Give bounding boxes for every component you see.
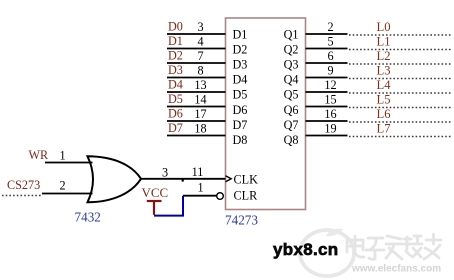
svg-text:CLR: CLR	[234, 189, 259, 203]
svg-text:D5: D5	[233, 88, 248, 102]
svg-text:D1: D1	[168, 34, 183, 48]
svg-text:D6: D6	[233, 103, 248, 117]
svg-text:D3: D3	[168, 63, 183, 77]
svg-text:D4: D4	[168, 78, 183, 92]
svg-text:1: 1	[59, 149, 65, 163]
svg-text:8: 8	[197, 64, 203, 78]
svg-text:14: 14	[194, 93, 206, 107]
wire Q2 to L1	[306, 48, 348, 50]
svg-text:D3: D3	[233, 58, 248, 72]
svg-text:ybx8.cn: ybx8.cn	[273, 240, 338, 259]
dotted wire to L1	[349, 49, 451, 51]
wire gate output pin 3 to CLK pin 11	[141, 178, 226, 180]
dotted wire CS273	[2, 195, 41, 197]
power VCC symbol	[147, 201, 162, 215]
wire D4 to pin 13	[167, 91, 226, 93]
dotted wire to L0	[349, 34, 451, 36]
wire D7 to pin 18	[167, 135, 226, 137]
svg-text:L0: L0	[377, 20, 391, 34]
wire CS273 to gate pin 2	[42, 193, 93, 195]
or-gate U2 7432	[88, 156, 142, 202]
dotted wire to L6	[349, 121, 451, 123]
svg-text:L3: L3	[377, 64, 391, 78]
clock input triangle on CLK	[226, 176, 232, 182]
wire D2 to pin 7	[167, 62, 226, 64]
svg-text:18: 18	[194, 122, 206, 136]
svg-text:WR: WR	[29, 148, 50, 162]
wire Q8 to L7	[306, 135, 348, 137]
svg-text:D7: D7	[168, 121, 183, 135]
junction nub on CLK wire	[182, 178, 184, 182]
svg-text:11: 11	[192, 165, 204, 179]
svg-text:17: 17	[194, 107, 206, 121]
watermark ybx8.cn circle	[300, 230, 354, 276]
svg-text:5: 5	[327, 35, 333, 49]
svg-text:L7: L7	[377, 122, 391, 136]
svg-text:19: 19	[324, 122, 336, 136]
svg-text:7432: 7432	[75, 210, 101, 225]
wire D6 to pin 17	[167, 120, 226, 122]
svg-text:D2: D2	[233, 42, 248, 56]
svg-text:CS273: CS273	[7, 178, 40, 192]
svg-text:VCC: VCC	[142, 185, 169, 200]
svg-text:Q5: Q5	[284, 88, 299, 102]
wire Q3 to L2	[306, 62, 348, 64]
svg-text:Q3: Q3	[284, 58, 299, 72]
svg-text:Q8: Q8	[284, 133, 299, 147]
svg-text:12: 12	[324, 78, 336, 92]
svg-text:D0: D0	[168, 20, 183, 34]
svg-text:D4: D4	[233, 73, 248, 87]
svg-text:CLK: CLK	[234, 173, 259, 187]
svg-text:74273: 74273	[225, 213, 258, 228]
dotted wire to L5	[349, 107, 451, 109]
wire VCC to CLR (blue)	[154, 196, 183, 216]
svg-text:16: 16	[324, 107, 336, 121]
svg-text:13: 13	[194, 78, 206, 92]
wire D0 to pin 3	[167, 33, 226, 35]
svg-text:L1: L1	[377, 35, 391, 49]
wire D5 to pin 14	[167, 106, 226, 108]
svg-text:D2: D2	[168, 49, 183, 63]
IC U1 74273 body	[226, 18, 306, 210]
svg-text:Q7: Q7	[284, 118, 299, 132]
svg-text:2: 2	[327, 20, 333, 34]
dotted wire to L3	[349, 78, 451, 80]
wire Q5 to L4	[306, 91, 348, 93]
svg-text:9: 9	[327, 64, 333, 78]
svg-text:4: 4	[197, 35, 203, 49]
svg-text:Q6: Q6	[284, 103, 299, 117]
svg-text:Q4: Q4	[284, 73, 299, 87]
wire Q4 to L3	[306, 77, 348, 79]
svg-text:2: 2	[59, 179, 65, 193]
watermark chinese characters	[347, 234, 441, 259]
dotted wire to L7	[349, 136, 451, 138]
wire to CLR pin 1	[183, 195, 217, 197]
wire D1 to pin 4	[167, 48, 226, 50]
svg-text:D5: D5	[168, 92, 183, 106]
inversion bubble on CLR	[217, 193, 224, 200]
wire Q7 to L6	[306, 120, 348, 122]
wire WR to gate pin 1	[45, 162, 93, 164]
svg-text:Q2: Q2	[284, 42, 299, 56]
svg-text:L5: L5	[377, 93, 391, 107]
svg-text:D1: D1	[233, 27, 248, 41]
wire Q6 to L5	[306, 106, 348, 108]
svg-text:D8: D8	[233, 133, 248, 147]
wire D3 to pin 8	[167, 77, 226, 79]
dotted wire to L2	[349, 63, 451, 65]
svg-text:L6: L6	[377, 107, 391, 121]
wire Q1 to L0	[306, 33, 348, 35]
svg-text:D6: D6	[168, 107, 183, 121]
svg-text:15: 15	[324, 93, 336, 107]
svg-text:3: 3	[197, 20, 203, 34]
svg-text:L4: L4	[377, 78, 392, 92]
svg-text:L2: L2	[377, 49, 391, 63]
dotted wire to L4	[349, 92, 451, 94]
svg-text:www.elecfans.com: www.elecfans.com	[351, 264, 441, 275]
svg-text:1: 1	[197, 180, 203, 194]
svg-text:D7: D7	[233, 118, 248, 132]
svg-text:3: 3	[162, 165, 168, 179]
svg-text:6: 6	[327, 49, 333, 63]
svg-text:Q1: Q1	[284, 27, 299, 41]
svg-text:7: 7	[197, 49, 203, 63]
